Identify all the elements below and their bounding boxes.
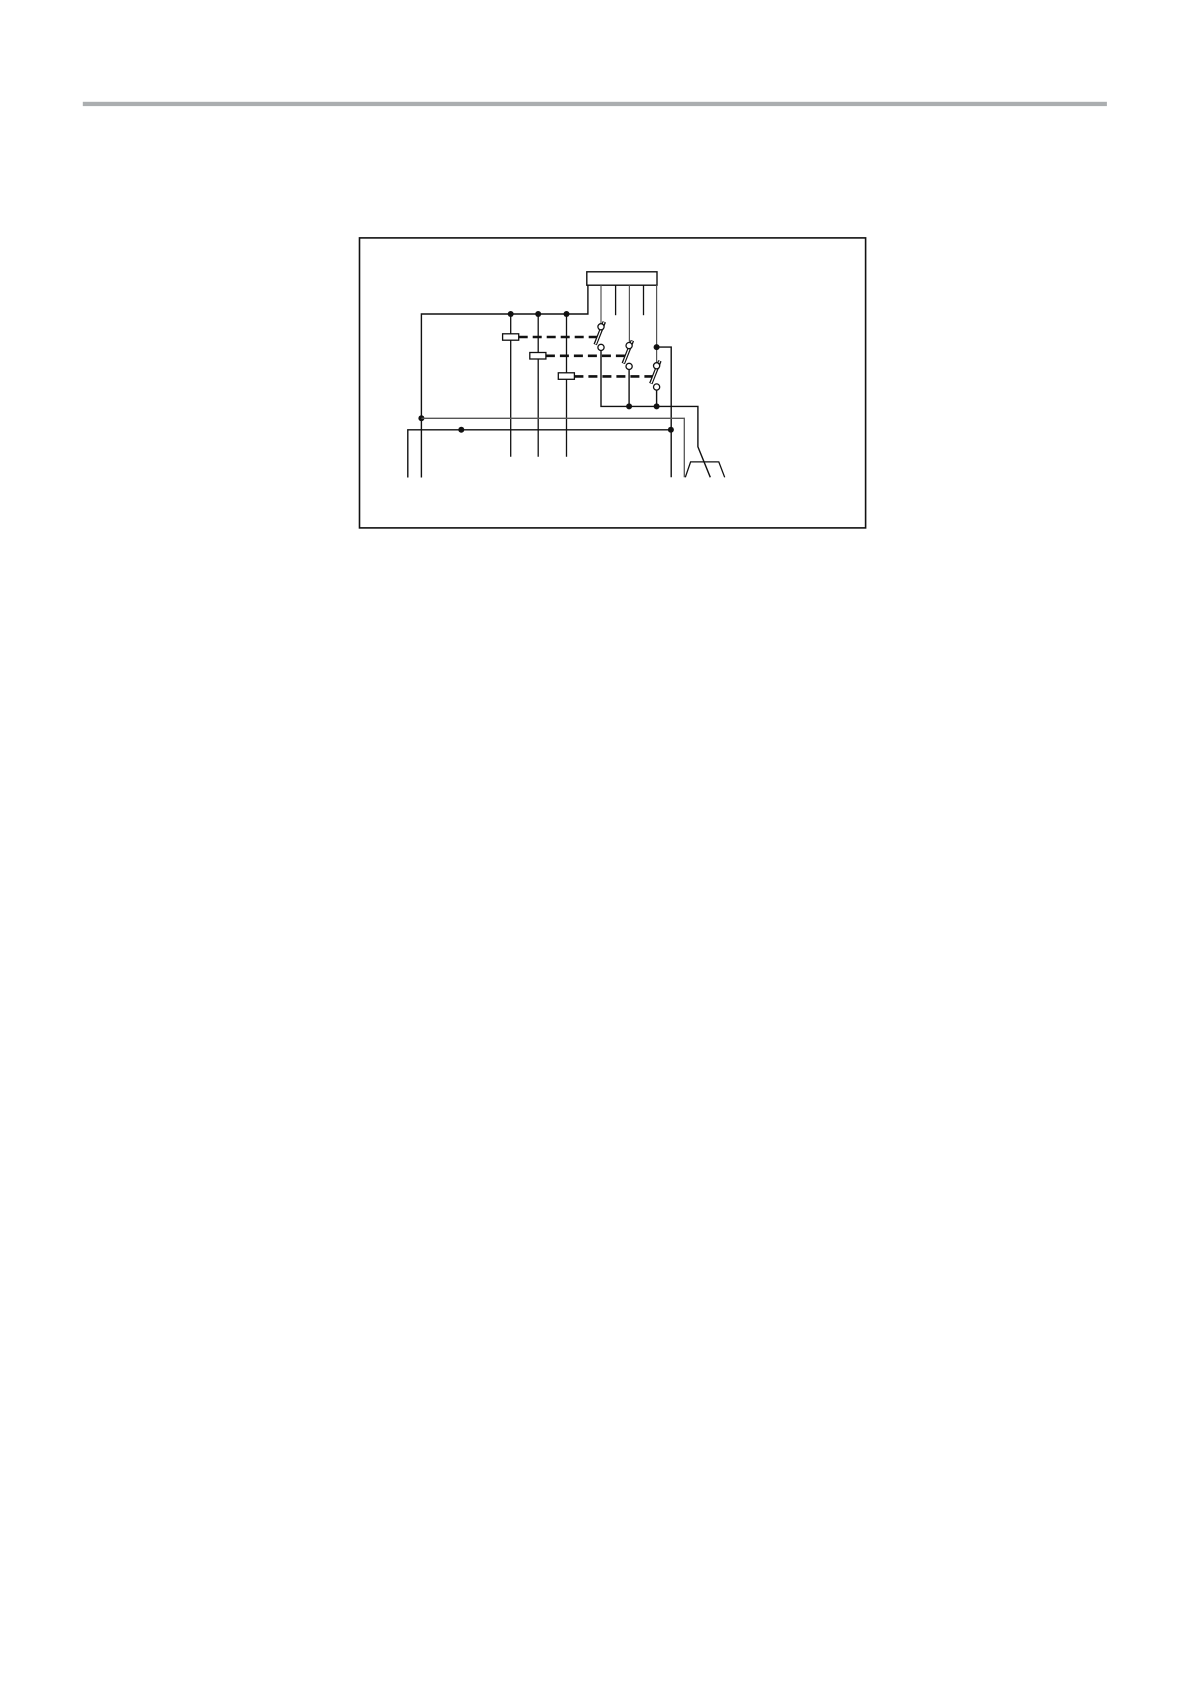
fuse F1 bbox=[503, 334, 519, 340]
node: earth-bar tap bbox=[458, 427, 464, 433]
linkage dashes row 2 bbox=[546, 354, 626, 357]
switch SW1 lever bbox=[595, 322, 604, 345]
wire: contactor internal leg 5 bbox=[656, 285, 658, 362]
fuse F2 bbox=[530, 353, 546, 360]
wire: contactor internal leg 3 bbox=[628, 285, 630, 342]
switch SW2 lever bbox=[623, 341, 632, 364]
outdoor unit enclosure bbox=[360, 238, 866, 528]
linkage dashes row 3 bbox=[574, 375, 652, 378]
node: bus junction 3 bbox=[564, 311, 570, 317]
cable trapezoid marker bbox=[685, 462, 724, 477]
wire: switch outputs bus bbox=[601, 350, 710, 477]
wire: contactor internal leg 1 bbox=[600, 285, 602, 323]
wire: phase 1 drop bbox=[510, 314, 512, 457]
fuse F3 bbox=[558, 373, 574, 380]
wire: SW3 output bbox=[656, 390, 658, 406]
wire: gray bus y418 bbox=[421, 418, 684, 477]
wire: phase 2 drop bbox=[537, 314, 539, 457]
node: bus junction 2 bbox=[535, 311, 541, 317]
wire: phase 3 drop bbox=[566, 314, 568, 457]
wire: control bus y430 bbox=[408, 430, 671, 478]
wire: SW2 output bbox=[628, 369, 630, 406]
node: cell1 tap bbox=[668, 427, 674, 433]
switch SW1 contacts bbox=[598, 324, 604, 330]
node: bus junction 1 bbox=[508, 311, 514, 317]
node: gray-bus tap bbox=[418, 415, 424, 421]
switch SW3 lever bbox=[651, 361, 660, 384]
wire: contactor stub leg 2 bbox=[615, 285, 617, 315]
header rule bbox=[83, 102, 1107, 106]
contactor K1 body bbox=[587, 272, 657, 285]
wire: junction to right terminal cell1 bbox=[657, 347, 672, 477]
switch SW3 contacts bbox=[654, 363, 660, 369]
wire: contactor stub leg 4 bbox=[643, 285, 645, 315]
linkage dashes row 1 bbox=[519, 336, 597, 339]
switch SW2 contacts bbox=[626, 343, 632, 349]
node: switch3 feed junction bbox=[654, 344, 660, 350]
wire: phase bus L to left terminal bbox=[421, 285, 588, 477]
